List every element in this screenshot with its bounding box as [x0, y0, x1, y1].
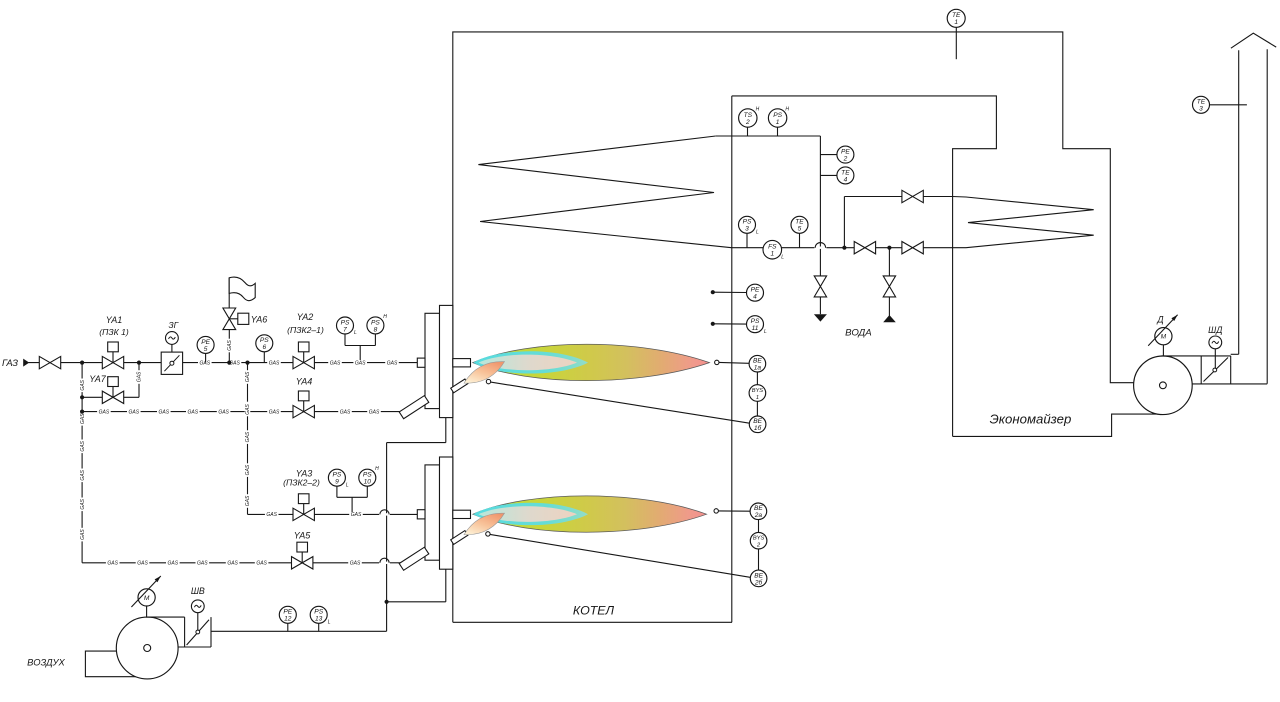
instrument TE4 [837, 167, 854, 184]
svg-text:PE: PE [751, 287, 760, 294]
instrument BE2б [750, 570, 767, 587]
flame burner 2 cyan core [473, 503, 588, 525]
svg-text:L: L [354, 330, 357, 336]
instrument PS8 [367, 314, 387, 334]
wire pilot 1 to BE1б [491, 382, 750, 423]
hop YA3 line over air riser [379, 510, 390, 516]
motor Д of flue fan [1148, 315, 1177, 346]
svg-text:1а: 1а [754, 365, 762, 372]
stem PS3 [746, 233, 748, 247]
valve water supply [883, 276, 895, 297]
flame burner 2 pilot [464, 513, 505, 535]
chimney left wall [1238, 50, 1240, 354]
svg-text:2б: 2б [754, 578, 763, 586]
instrument PS9 [328, 469, 349, 488]
instrument PS3 [739, 216, 760, 235]
svg-text:GAS: GAS [159, 409, 170, 415]
instrument PS7 [337, 317, 358, 336]
burner 1 body [440, 305, 453, 417]
node pilot 1 circle [486, 379, 490, 383]
stem PS7/PS8 manifold [345, 334, 375, 360]
controller circle ЗГ [166, 332, 179, 345]
svg-text:GAS: GAS [269, 360, 280, 366]
svg-text:TE: TE [952, 12, 961, 19]
svg-text:L: L [781, 254, 784, 260]
wire gas bypass YA7 line [82, 396, 139, 398]
svg-text:10: 10 [364, 479, 372, 486]
vent flag [229, 277, 255, 301]
wire economizer bypass top line [844, 196, 952, 198]
svg-text:ШВ: ШВ [191, 586, 205, 596]
air fan circle [116, 617, 178, 679]
svg-text:ЗГ: ЗГ [168, 320, 179, 330]
wire gas line YA3 after hop [389, 513, 417, 515]
svg-text:GAS: GAS [129, 409, 140, 415]
wire BYS1 to BE1б [756, 401, 758, 416]
controller circle ШД [1209, 336, 1222, 349]
svg-text:Д: Д [1156, 315, 1163, 325]
wire air riser to burners [386, 443, 388, 632]
svg-text:1: 1 [776, 119, 780, 126]
svg-text:GAS: GAS [137, 561, 148, 567]
node feedwater/bypass tee [842, 246, 846, 250]
stem PE5 [205, 353, 207, 362]
chimney top arrow [1231, 33, 1276, 48]
svg-text:PS: PS [333, 472, 342, 479]
stem TS2 [747, 128, 749, 137]
svg-text:GAS: GAS [137, 371, 143, 382]
node PS11 tap [711, 322, 715, 326]
valve feedwater 1 [854, 242, 875, 254]
instrument TE1 [947, 9, 965, 27]
svg-text:M: M [144, 595, 150, 602]
stem PE12 [287, 623, 289, 631]
svg-text:GAS: GAS [245, 371, 251, 382]
svg-text:GAS: GAS [245, 464, 251, 475]
instrument BE2a [750, 503, 767, 520]
svg-text:(ПЗК 1): (ПЗК 1) [99, 327, 129, 337]
svg-text:YA5: YA5 [294, 531, 312, 541]
burner 2 pilot tube [451, 531, 468, 545]
svg-text:GAS: GAS [80, 469, 86, 480]
svg-text:4: 4 [844, 176, 848, 183]
manual valve gas inlet [39, 356, 60, 368]
svg-text:BE: BE [753, 418, 762, 425]
svg-text:9: 9 [335, 479, 339, 486]
hop YA5 line over air riser [379, 558, 390, 564]
solenoid valve YA5 [292, 542, 313, 569]
svg-text:PS: PS [260, 337, 269, 344]
svg-text:GAS: GAS [80, 498, 86, 509]
node gas tee at YA7 right [137, 361, 141, 365]
wire BYS2 to BE2б [758, 549, 760, 570]
solenoid valve YA3 [293, 494, 314, 521]
svg-text:GAS: GAS [245, 495, 251, 506]
gas label on YA5 line [348, 560, 362, 567]
svg-text:GAS: GAS [256, 561, 267, 567]
instrument FS1 [763, 240, 784, 260]
economizer bottom wall [953, 414, 1160, 436]
stem PS13 [318, 623, 320, 631]
wire gas bypass left drop [79, 363, 86, 398]
node gas header tee YA4 [80, 410, 84, 414]
svg-text:PS: PS [363, 472, 372, 479]
svg-text:GAS: GAS [227, 561, 238, 567]
svg-text:2: 2 [843, 156, 848, 163]
controller circle ШВ [191, 600, 204, 613]
svg-text:GAS: GAS [269, 409, 280, 415]
svg-text:1: 1 [954, 19, 958, 26]
stem ШВ to damper [197, 613, 199, 630]
svg-text:13: 13 [315, 616, 323, 623]
gas label on YA3 line at PS stems [349, 512, 363, 518]
instrument BYS2 [750, 532, 767, 549]
svg-text:L: L [756, 229, 759, 235]
svg-text:12: 12 [284, 616, 292, 623]
boiler furnace outline (КОТЕЛ) [453, 32, 1134, 622]
wire gas line YA5 (stage 2 burner 2) [82, 560, 380, 567]
instrument BYS1 [749, 385, 766, 402]
stem TE5 [799, 233, 801, 247]
svg-text:5: 5 [798, 226, 802, 233]
svg-text:Экономайзер: Экономайзер [990, 412, 1072, 427]
svg-text:H: H [785, 106, 789, 112]
burner 1 nozzle [453, 359, 471, 367]
svg-text:GAS: GAS [350, 561, 361, 567]
svg-text:FS: FS [768, 244, 777, 251]
svg-text:4: 4 [753, 294, 757, 301]
valve economizer bypass [902, 190, 923, 202]
node air branch tee [385, 600, 389, 604]
burner 1 gas inlet stub [417, 358, 425, 367]
svg-text:YA1: YA1 [106, 315, 123, 325]
svg-text:BE: BE [754, 572, 763, 579]
node flame 1 tip circle [715, 360, 719, 364]
instrument PE2 [837, 146, 854, 163]
wire flame 2 tip to BE2a [718, 510, 750, 512]
flue fan circle [1134, 356, 1193, 415]
instrument PE5 [197, 336, 214, 353]
wire water supply drop [888, 297, 890, 316]
wire gas branch YA6 vent [227, 330, 234, 363]
svg-text:H: H [375, 466, 379, 472]
wire air stub burner 2 [445, 569, 447, 601]
svg-text:2: 2 [745, 119, 750, 126]
svg-text:GAS: GAS [99, 409, 110, 415]
flame burner 2 pale core [479, 506, 578, 522]
svg-text:PS: PS [743, 219, 752, 226]
svg-text:PS: PS [341, 319, 350, 326]
wire water supply riser [888, 248, 890, 276]
wire feedwater line after crossing [825, 247, 953, 249]
svg-text:1б: 1б [754, 424, 762, 432]
svg-text:GAS: GAS [330, 360, 341, 366]
wire air main line [211, 630, 387, 632]
svg-text:8: 8 [374, 326, 378, 333]
air damper pivot circle [196, 630, 200, 634]
svg-text:H: H [383, 314, 387, 320]
flue fan hub [1160, 382, 1167, 389]
wire feedwater line from drum to economizer [732, 247, 816, 249]
svg-text:H: H [756, 106, 760, 112]
svg-text:GAS: GAS [107, 561, 118, 567]
wire gas bypass right rise [136, 363, 143, 398]
svg-text:YA4: YA4 [296, 377, 313, 387]
svg-text:GAS: GAS [245, 431, 251, 442]
svg-text:BE: BE [753, 358, 762, 365]
water supply arrow (up) [883, 315, 896, 322]
instrument PS6 [256, 335, 273, 352]
svg-text:PS: PS [371, 319, 380, 326]
svg-text:PS: PS [314, 609, 323, 616]
boiler convective tube bank (zigzag) [478, 136, 731, 248]
svg-text:GAS: GAS [80, 529, 86, 540]
svg-text:GAS: GAS [351, 512, 362, 518]
svg-text:BYS: BYS [753, 536, 765, 542]
svg-text:6: 6 [262, 344, 266, 351]
svg-text:GAS: GAS [80, 440, 86, 451]
svg-text:GAS: GAS [387, 360, 398, 366]
svg-text:PE: PE [841, 149, 850, 156]
svg-text:GAS: GAS [266, 512, 277, 518]
svg-text:YA7: YA7 [89, 374, 107, 384]
svg-text:L: L [328, 619, 331, 625]
wire flame 1 tip to BE1a [719, 361, 749, 364]
stem ШД to damper [1214, 349, 1216, 368]
svg-text:GAS: GAS [168, 561, 179, 567]
svg-text:PE: PE [283, 609, 292, 616]
stem PS1 [777, 128, 779, 137]
wire air branch to burner 1 [387, 442, 446, 444]
wire drum blowdown drop [819, 297, 821, 314]
node flame 2 tip circle [714, 509, 718, 513]
burner 2 nozzle [453, 510, 471, 518]
burner 1 stage-2 gas duct (diagonal) [399, 396, 429, 419]
solenoid valve YA7 [102, 377, 123, 404]
chimney right wall [1266, 49, 1268, 384]
node gas tee at YA7 left [80, 361, 84, 365]
svg-text:GAS: GAS [355, 360, 366, 366]
wire gas line YA4 (stage 2 burner 1) [82, 409, 401, 416]
stem ЗГ circle [171, 344, 173, 352]
wire pilot 2 to BE2б [490, 534, 750, 577]
svg-text:(ПЗК2–2): (ПЗК2–2) [283, 478, 320, 488]
valve feedwater 2 [902, 242, 923, 254]
wire bypass riser [843, 197, 845, 248]
hop of feedwater line over blowdown line [814, 243, 826, 249]
boiler bottom wall [453, 621, 732, 623]
svg-text:GAS: GAS [340, 409, 351, 415]
solenoid valve YA6 (vent) [223, 308, 249, 330]
stem PS6 [263, 352, 265, 363]
flame burner 2 outer [473, 496, 707, 532]
node PE4 tap [711, 290, 715, 294]
svg-text:YA2: YA2 [297, 312, 314, 322]
wire air branch to burner 2 [387, 601, 446, 603]
blowdown drain arrow (down) [814, 314, 827, 321]
svg-text:2а: 2а [754, 512, 763, 519]
burner 2 stage-2 gas duct (diagonal) [399, 547, 429, 570]
svg-text:5: 5 [204, 346, 208, 353]
vent flag pole [228, 278, 230, 308]
stem TE4 [820, 174, 837, 176]
instrument PS13 [310, 606, 331, 625]
burner 1 front flange [425, 313, 440, 408]
boiler inner flue duct wall [732, 96, 997, 437]
svg-text:1: 1 [770, 251, 774, 258]
valve drum blowdown [814, 276, 826, 297]
flue fan outlet top line [1162, 355, 1231, 357]
solenoid valve YA4 [293, 391, 314, 418]
flame burner 1 pilot [464, 362, 505, 384]
wire gas line YA3 (burner 2) [248, 512, 380, 518]
burner 1 pilot tube [451, 379, 468, 393]
instrument BE1a [749, 355, 766, 372]
svg-text:TE: TE [841, 169, 850, 176]
motor M of air fan [131, 576, 160, 607]
gas label at crossing of down branch and YA4 line [245, 403, 252, 417]
svg-text:3: 3 [1199, 106, 1203, 113]
solenoid valve YA1 [102, 342, 123, 369]
instrument PS10 [359, 466, 379, 486]
burner 2 front flange [425, 465, 440, 560]
svg-text:ШД: ШД [1208, 325, 1222, 335]
svg-text:7: 7 [343, 326, 347, 333]
flue damper box ШД [1192, 354, 1267, 384]
svg-text:GAS: GAS [227, 340, 233, 351]
flame burner 1 pale core [479, 355, 578, 371]
instrument TS2 [739, 106, 760, 127]
svg-text:GAS: GAS [245, 404, 251, 415]
burner 2 gas inlet stub [417, 510, 425, 519]
svg-text:L: L [346, 482, 349, 488]
svg-text:11: 11 [752, 325, 759, 332]
instrument PE12 [279, 606, 296, 623]
stem motor to fan [146, 606, 148, 617]
wire gas branch down from main (to YA3 line) [245, 363, 252, 515]
svg-text:(ПЗК2–1): (ПЗК2–1) [287, 325, 324, 335]
svg-text:TS: TS [744, 112, 753, 119]
svg-text:YA6: YA6 [251, 315, 268, 325]
node pilot 2 circle [486, 532, 490, 536]
node gas tee down branch [245, 361, 249, 365]
instrument TE3 [1193, 96, 1210, 113]
svg-text:TE: TE [1197, 99, 1206, 106]
svg-text:PS: PS [751, 318, 760, 325]
wire gas line YA5 after hop [389, 562, 401, 564]
instrument PE4 [747, 284, 764, 301]
instrument BE1б [749, 416, 766, 433]
node gas tee YA6 [227, 361, 231, 365]
instrument TE5 [791, 216, 808, 233]
node feedwater/supply tee [887, 246, 891, 250]
svg-text:M: M [1161, 334, 1167, 341]
stem PS9/PS10 manifold [337, 486, 367, 512]
svg-text:ВОЗДУХ: ВОЗДУХ [27, 657, 65, 668]
instrument PS1 [768, 106, 789, 127]
economizer coil (zigzag) [953, 197, 1094, 248]
wire gas left header down [79, 397, 86, 563]
wire gas main line [29, 360, 418, 367]
svg-text:GAS: GAS [80, 379, 86, 390]
svg-text:GAS: GAS [369, 409, 380, 415]
svg-text:GAS: GAS [218, 409, 229, 415]
svg-text:GAS: GAS [197, 561, 208, 567]
wire BE1a to BYS1 [756, 372, 758, 385]
air damper box ШВ [178, 617, 212, 647]
air fan hub [144, 645, 151, 652]
svg-text:TE: TE [795, 219, 804, 226]
svg-text:ГАЗ: ГАЗ [2, 357, 18, 368]
svg-text:PE: PE [201, 339, 210, 346]
svg-text:L: L [764, 329, 767, 335]
instrument PS11 [747, 316, 768, 335]
wire PS11 tap [713, 323, 747, 325]
node gas YA7 line left [80, 395, 84, 399]
stem PE2 [820, 154, 837, 156]
flame burner 1 outer [473, 344, 710, 380]
flame burner 1 cyan core [473, 351, 588, 373]
igniter box ЗГ [161, 352, 182, 374]
svg-text:1: 1 [756, 395, 759, 401]
burner 2 body [440, 457, 453, 569]
flue damper pivot circle [1213, 368, 1217, 372]
svg-text:GAS: GAS [80, 413, 86, 424]
svg-text:ВОДА: ВОДА [845, 328, 871, 339]
svg-text:PS: PS [773, 112, 782, 119]
svg-text:КОТЕЛ: КОТЕЛ [573, 604, 615, 618]
wire BE2a to BYS2 [758, 520, 760, 533]
solenoid valve YA2 [293, 342, 314, 369]
gas inlet arrow [23, 359, 29, 367]
stem motor to flue fan [1162, 345, 1164, 356]
svg-text:BE: BE [754, 505, 763, 512]
air fan outlet top line [146, 616, 185, 618]
furnace right wall [731, 96, 733, 622]
svg-text:BYS: BYS [752, 388, 764, 394]
stem TE3 [1210, 104, 1247, 106]
boiler steam drum [716, 135, 821, 137]
svg-text:GAS: GAS [188, 409, 199, 415]
svg-text:3: 3 [745, 226, 749, 233]
air fan inlet duct [85, 651, 135, 677]
stem TE1 [955, 27, 957, 59]
wire PE4 tap [713, 291, 747, 293]
wire air stub burner 1 [445, 418, 447, 443]
drum blowdown line (right edge of drum) [819, 136, 821, 276]
